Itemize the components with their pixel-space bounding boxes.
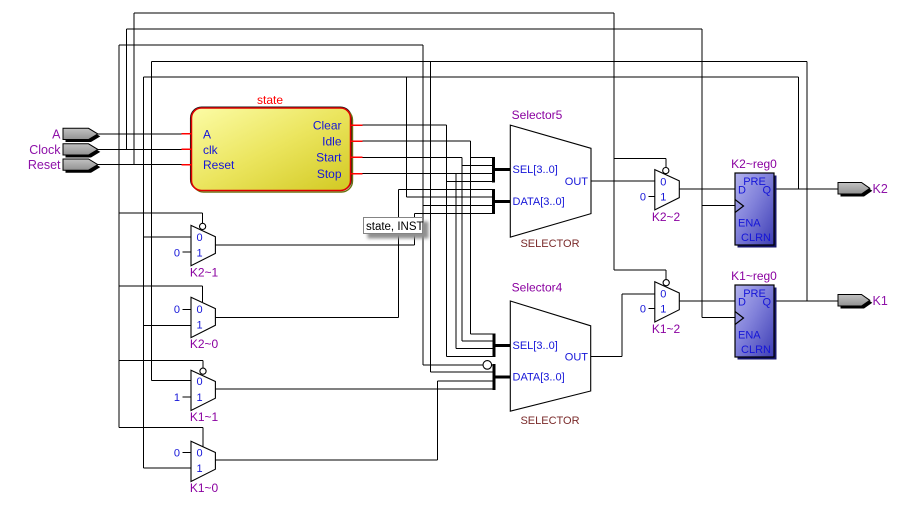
wire net K2~1 output to Selector5 DATA bbox=[215, 214, 493, 246]
selector block Selector5 bbox=[510, 108, 591, 250]
wire net Start bbox=[362, 157, 494, 341]
svg-text:1: 1 bbox=[197, 392, 203, 404]
wire net A: input pin A to state.A bbox=[98, 133, 182, 135]
wire bus bar Selector4 SEL bbox=[494, 333, 511, 357]
svg-text:state, INST: state, INST bbox=[366, 221, 424, 233]
svg-text:clk: clk bbox=[203, 143, 219, 157]
svg-text:K2~2: K2~2 bbox=[652, 210, 681, 224]
svg-text:1: 1 bbox=[197, 247, 203, 259]
svg-text:state: state bbox=[257, 93, 283, 107]
svg-text:Selector5: Selector5 bbox=[512, 108, 563, 122]
wire net select rail y44: rail, left riser x119 feeding 4 mux selects, right riser x423 to selector data bbox=[119, 45, 494, 447]
svg-text:D: D bbox=[738, 297, 746, 309]
wire net Idle bbox=[362, 141, 494, 334]
svg-text:Start: Start bbox=[316, 151, 342, 165]
register K2~reg0 bbox=[731, 157, 777, 248]
svg-text:ENA: ENA bbox=[738, 330, 761, 342]
svg-text:0: 0 bbox=[197, 376, 203, 388]
input pin Clock bbox=[29, 143, 100, 158]
mux K1~0 bbox=[174, 441, 219, 495]
wire net K1 feedback rail y61: from K1 reg Q up x807, rail, risers x151.5 and x430.4 bbox=[152, 62, 808, 381]
svg-text:DATA[3..0]: DATA[3..0] bbox=[513, 371, 565, 383]
state machine block state bbox=[182, 93, 363, 192]
svg-text:K2: K2 bbox=[873, 182, 888, 196]
svg-text:CLRN: CLRN bbox=[741, 344, 771, 356]
input pin A bbox=[52, 127, 100, 142]
selector block Selector4 bbox=[510, 280, 590, 427]
mux K2~2 bbox=[640, 168, 681, 224]
svg-text:K2~0: K2~0 bbox=[190, 337, 219, 351]
svg-text:D: D bbox=[738, 185, 746, 197]
svg-text:SELECTOR: SELECTOR bbox=[520, 238, 579, 250]
svg-text:Clock: Clock bbox=[29, 143, 61, 157]
svg-text:OUT: OUT bbox=[565, 351, 589, 363]
svg-text:0: 0 bbox=[660, 289, 666, 301]
svg-text:SEL[3..0]: SEL[3..0] bbox=[513, 340, 558, 352]
svg-text:Selector4: Selector4 bbox=[512, 280, 563, 294]
svg-text:A: A bbox=[203, 127, 211, 141]
svg-text:A: A bbox=[52, 127, 61, 141]
output pin K1 bbox=[838, 294, 888, 309]
output pin K2 bbox=[838, 182, 888, 197]
svg-text:K1~1: K1~1 bbox=[190, 410, 219, 424]
wire net Stop bbox=[362, 174, 494, 349]
mux K2~0 bbox=[174, 297, 219, 351]
svg-text:DATA[3..0]: DATA[3..0] bbox=[513, 196, 565, 208]
wire net K1~2 output to K1~reg0 D bbox=[679, 300, 735, 302]
svg-text:CLRN: CLRN bbox=[741, 232, 771, 244]
wire bus bar Selector5 SEL bbox=[494, 157, 511, 183]
svg-text:SEL[3..0]: SEL[3..0] bbox=[513, 164, 558, 176]
mux K1~2 bbox=[640, 280, 681, 336]
wire net Clear: state output to SEL buses of both selectors bbox=[362, 125, 494, 356]
svg-text:Reset: Reset bbox=[28, 158, 61, 172]
svg-text:0: 0 bbox=[660, 176, 666, 188]
svg-text:Clear: Clear bbox=[313, 118, 342, 132]
svg-text:0: 0 bbox=[197, 232, 203, 244]
svg-text:ENA: ENA bbox=[738, 218, 761, 230]
svg-text:1: 1 bbox=[197, 463, 203, 475]
svg-text:0: 0 bbox=[640, 304, 646, 316]
wire net Reset: pin to state.Reset, up riser x134, top rail y13, down x614 to mux selects bbox=[98, 13, 666, 281]
svg-text:K1~2: K1~2 bbox=[652, 322, 681, 336]
svg-text:1: 1 bbox=[197, 319, 203, 331]
svg-text:0: 0 bbox=[197, 304, 203, 316]
mux K2~1 bbox=[174, 223, 219, 279]
wire net Selector4 OUT to K1~2 input 0 bbox=[591, 294, 655, 356]
svg-text:Stop: Stop bbox=[317, 167, 342, 181]
svg-text:Q: Q bbox=[762, 185, 771, 197]
wire net K2~2 output to K2~reg0 D bbox=[679, 188, 735, 190]
svg-text:SELECTOR: SELECTOR bbox=[520, 415, 579, 427]
svg-text:Idle: Idle bbox=[322, 134, 342, 148]
svg-text:OUT: OUT bbox=[565, 176, 589, 188]
svg-text:K1~0: K1~0 bbox=[190, 481, 219, 495]
wire bus bar Selector4 DATA bbox=[494, 364, 511, 390]
node junction circle on Selector4 DATA wire bbox=[483, 361, 492, 370]
svg-text:0: 0 bbox=[174, 448, 180, 460]
svg-text:K1: K1 bbox=[873, 294, 888, 308]
wire net K1~0 output to Selector4 DATA bbox=[215, 381, 494, 460]
wire net K2~reg0 Q to output pin K2 bbox=[774, 188, 838, 190]
svg-text:0: 0 bbox=[197, 448, 203, 460]
svg-text:1: 1 bbox=[660, 304, 666, 316]
svg-text:K2~reg0: K2~reg0 bbox=[731, 157, 777, 171]
svg-text:1: 1 bbox=[174, 392, 180, 404]
mux K1~1 bbox=[174, 368, 219, 424]
wire net Selector5 OUT to K2~2 input 0 bbox=[591, 180, 655, 182]
svg-text:K2~1: K2~1 bbox=[190, 266, 219, 280]
wire bus bar Selector5 DATA bbox=[494, 189, 511, 214]
svg-text:K1~reg0: K1~reg0 bbox=[731, 269, 777, 283]
svg-text:Reset: Reset bbox=[203, 158, 235, 172]
tooltip state, INST bbox=[364, 218, 429, 239]
svg-text:0: 0 bbox=[174, 247, 180, 259]
svg-text:0: 0 bbox=[640, 192, 646, 204]
register K1~reg0 bbox=[731, 269, 777, 360]
wire net K2 feedback rail y77: from K2 reg Q up x798, rail, risers x143.5 and x406.4 bbox=[144, 77, 799, 468]
input pin Reset bbox=[28, 158, 100, 173]
wire net Clock: pin to state.clk, up left riser, top rail, down to register clocks bbox=[98, 29, 735, 318]
wire net K2~0 output to Selector5 DATA bbox=[215, 190, 493, 318]
wire net K1~1 output to Selector4 DATA bbox=[215, 388, 494, 390]
svg-text:Q: Q bbox=[762, 297, 771, 309]
wire net K1~reg0 Q to output pin K1 bbox=[774, 300, 838, 302]
svg-text:0: 0 bbox=[174, 304, 180, 316]
svg-text:1: 1 bbox=[660, 192, 666, 204]
